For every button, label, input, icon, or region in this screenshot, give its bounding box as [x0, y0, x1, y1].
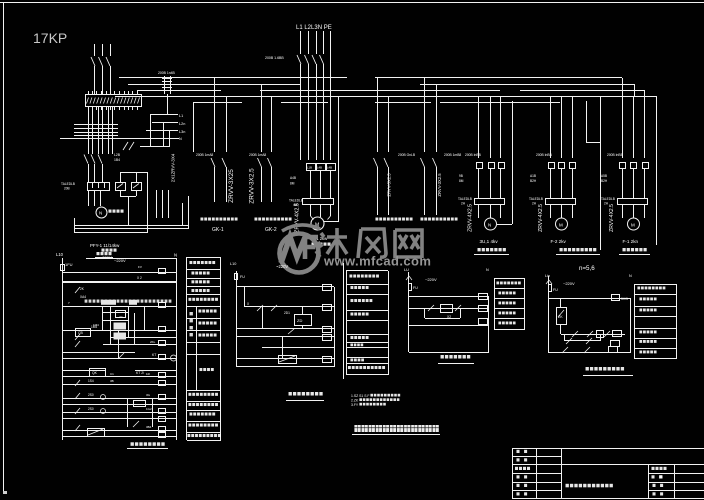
svg-text:ZRVV-4X2.5: ZRVV-4X2.5 [468, 204, 474, 232]
svg-text:C1: C1 [110, 372, 114, 376]
svg-text:F-2 2kv: F-2 2kv [551, 239, 567, 244]
svg-text:~220V: ~220V [563, 281, 575, 286]
svg-text:PFY-1 11/14kw: PFY-1 11/14kw [90, 243, 120, 248]
svg-text:QK: QK [92, 371, 98, 375]
svg-text:2D1: 2D1 [284, 311, 290, 315]
svg-text:FU: FU [240, 275, 245, 279]
svg-text:L10: L10 [230, 262, 236, 266]
svg-text:A5B: A5B [601, 174, 607, 178]
svg-text:200B GnLB: 200B GnLB [398, 153, 416, 157]
svg-text:200B InBB: 200B InBB [607, 153, 624, 157]
svg-text:200B InBB: 200B InBB [536, 153, 553, 157]
svg-text:1.SZ S1 S F: 1.SZ S1 S F [351, 394, 369, 398]
svg-text:L4B: L4B [317, 166, 322, 170]
svg-text:1S4: 1S4 [88, 379, 94, 383]
svg-text:A1B: A1B [530, 174, 536, 178]
svg-text:1B4: 1B4 [114, 158, 120, 162]
svg-text:8M: 8M [290, 182, 295, 186]
svg-text:ZRVV-4X2.5: ZRVV-4X2.5 [295, 203, 301, 233]
svg-text:L3n: L3n [179, 130, 185, 134]
svg-text:17KP: 17KP [33, 30, 67, 46]
svg-text:TALEDLB: TALEDLB [458, 197, 472, 201]
svg-text:200B 1mA8: 200B 1mA8 [249, 153, 266, 157]
svg-text:~220V: ~220V [425, 277, 437, 282]
svg-text:www.mfcad.com: www.mfcad.com [323, 254, 431, 269]
svg-text:GK-1: GK-1 [212, 227, 224, 233]
svg-text:L1B: L1B [307, 166, 312, 170]
svg-text:2.ZK: 2.ZK [351, 399, 359, 403]
svg-text:2H: 2H [532, 202, 537, 206]
svg-text:8M: 8M [459, 179, 464, 183]
svg-text:2S0: 2S0 [88, 393, 94, 397]
svg-text:N: N [488, 223, 491, 228]
svg-text:L10: L10 [56, 252, 64, 257]
svg-text:Lin: Lin [545, 274, 550, 278]
svg-text:ZRVV-3X25: ZRVV-3X25 [228, 169, 235, 203]
svg-text:FV: FV [138, 265, 142, 269]
svg-text:3B: 3B [110, 379, 114, 383]
svg-text:CB: CB [78, 331, 83, 335]
svg-text:1M4: 1M4 [93, 323, 99, 327]
svg-text:A4B: A4B [290, 176, 296, 180]
svg-text:2KL: 2KL [150, 340, 156, 344]
svg-text:9B: 9B [459, 174, 463, 178]
svg-text:3U,1 4kv: 3U,1 4kv [480, 239, 499, 244]
svg-text:KT: KT [152, 353, 156, 357]
svg-text:3G: 3G [146, 393, 151, 397]
svg-text:N: N [99, 211, 102, 216]
svg-text:M: M [559, 223, 563, 228]
svg-text:F-1 2kn: F-1 2kn [623, 239, 639, 244]
svg-text:XA4: XA4 [80, 295, 86, 299]
svg-text:200B 1mB8: 200B 1mB8 [444, 153, 461, 157]
svg-text:N: N [629, 274, 632, 278]
svg-text:~220V: ~220V [276, 264, 288, 269]
svg-text:n=5,6: n=5,6 [579, 265, 595, 272]
svg-text:X 2: X 2 [137, 276, 142, 280]
svg-text:ZRVV-3X2.5: ZRVV-3X2.5 [437, 173, 442, 197]
svg-text:1G2: 1G2 [146, 407, 152, 411]
svg-text:KT 2/: KT 2/ [136, 371, 144, 375]
svg-text:ZRVV-4X2.5: ZRVV-4X2.5 [538, 204, 544, 232]
svg-text:GK-2: GK-2 [265, 227, 277, 233]
svg-text:200B 1n4B: 200B 1n4B [158, 71, 176, 75]
svg-text:B2H: B2H [601, 179, 608, 183]
svg-text:200B 1mA8: 200B 1mA8 [196, 153, 213, 157]
svg-text:200B 1.6BB: 200B 1.6BB [265, 56, 284, 60]
svg-text:L2n: L2n [179, 122, 185, 126]
svg-text:M: M [631, 223, 635, 228]
svg-text:N: N [486, 268, 489, 272]
svg-text:3H/3: 3H/3 [621, 297, 628, 301]
svg-text:TALEDLB: TALEDLB [529, 197, 543, 201]
svg-text:3B4: 3B4 [146, 425, 152, 429]
svg-text:2H: 2H [461, 202, 466, 206]
svg-text:TALEDLB: TALEDLB [289, 199, 303, 203]
svg-text:2S0: 2S0 [88, 407, 94, 411]
svg-text:20B: 20B [64, 187, 70, 191]
svg-text:L1: L1 [179, 114, 183, 118]
svg-text:FU: FU [553, 288, 558, 292]
svg-text:ZRVV-3X2.5: ZRVV-3X2.5 [387, 173, 392, 197]
svg-text:2X1ZRVV-3X4: 2X1ZRVV-3X4 [171, 153, 176, 182]
svg-text:200B InBB: 200B InBB [465, 153, 482, 157]
svg-text:ZRVV-3X2.5: ZRVV-3X2.5 [249, 168, 256, 204]
svg-text:1FU: 1FU [65, 262, 73, 267]
svg-text:N: N [174, 253, 177, 258]
svg-text:ZRVV-4X2.5: ZRVV-4X2.5 [609, 204, 615, 232]
svg-text:TALEDLB: TALEDLB [601, 197, 615, 201]
svg-text:L1 L2L3N PE: L1 L2L3N PE [296, 25, 332, 31]
svg-text:N: N [179, 137, 182, 141]
svg-text:TALEDLB: TALEDLB [61, 182, 75, 186]
svg-text:LU: LU [404, 268, 409, 272]
svg-text:B2H: B2H [530, 179, 537, 183]
svg-text:FU: FU [413, 286, 418, 290]
svg-text:3.FY: 3.FY [351, 403, 359, 407]
svg-text:L4B: L4B [327, 166, 332, 170]
svg-text:~220V: ~220V [114, 258, 126, 263]
svg-text:2Y: 2Y [119, 315, 123, 319]
svg-text:L2B: L2B [114, 153, 121, 157]
svg-text:ZD: ZD [297, 318, 302, 323]
